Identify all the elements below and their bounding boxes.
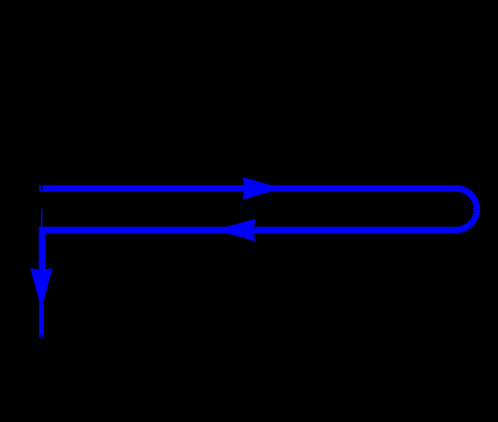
notch at bottom end of shaft [41, 333, 42, 337]
arrowhead down (left wire) [30, 268, 52, 309]
wire: shaft below down-arrow head [39, 294, 44, 337]
start-gap notch on top wire [41, 187, 43, 190]
wire loop: top line, right u-turn, bottom return line, left drop [39, 188, 477, 296]
arrowhead left (bottom wire) [215, 219, 256, 241]
seam on u-turn [474, 208, 480, 211]
arrowhead right (top wire) [242, 177, 283, 199]
thin vertical connector wire [41, 209, 42, 228]
